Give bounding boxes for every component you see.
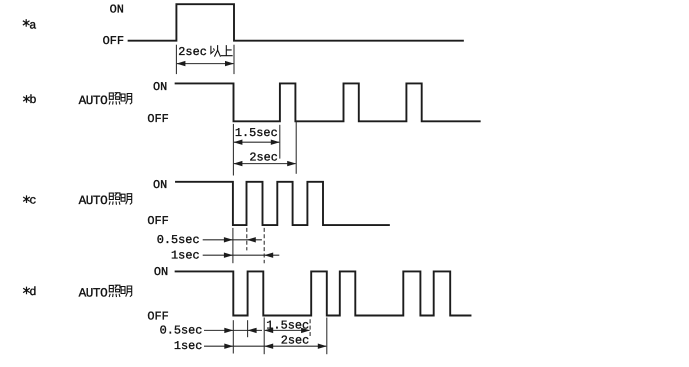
svg-text:AUTO: AUTO xyxy=(79,193,108,208)
svg-text:ON: ON xyxy=(154,265,168,279)
svg-text:AUTO: AUTO xyxy=(79,286,108,301)
row d label *d xyxy=(24,285,37,299)
dimension arrow 2sec (row b) xyxy=(233,161,296,166)
dimension arrow 2sec以上 xyxy=(176,61,234,66)
extension line a right xyxy=(233,45,235,74)
extension line d fall2 xyxy=(263,318,265,355)
svg-text:a: a xyxy=(29,18,36,32)
dimension arrows 1sec + 2sec (row d) xyxy=(204,344,327,349)
row b label AUTO照明 xyxy=(79,93,132,108)
dimension arrow 1.5sec (row d) xyxy=(264,328,310,333)
extension line b fall xyxy=(232,124,234,176)
svg-text:0.5sec: 0.5sec xyxy=(160,323,203,337)
waveform d xyxy=(176,271,471,315)
waveform b xyxy=(176,83,480,121)
dimension arrow 1.5sec (row b) xyxy=(233,140,279,145)
svg-text:OFF: OFF xyxy=(147,112,168,126)
svg-text:c: c xyxy=(29,194,36,208)
svg-text:OFF: OFF xyxy=(147,214,168,228)
dimension arrows 0.5sec (row d) xyxy=(204,328,262,333)
extension line d rise3 (dashed) xyxy=(309,319,311,337)
extension line a left xyxy=(175,45,177,74)
row d label AUTO照明 xyxy=(79,285,132,300)
row a label *a xyxy=(23,18,36,32)
extension line d fall1 xyxy=(232,320,234,353)
svg-text:b: b xyxy=(29,93,36,107)
svg-text:AUTO: AUTO xyxy=(79,93,108,108)
svg-text:1sec: 1sec xyxy=(171,248,200,262)
waveform c xyxy=(176,182,389,225)
extension line d rise1 xyxy=(247,320,249,337)
svg-text:OFF: OFF xyxy=(103,34,124,48)
row b label *b xyxy=(24,93,37,107)
svg-text:2sec: 2sec xyxy=(249,151,278,165)
extension line c fall2 (dashed) xyxy=(263,228,265,263)
extension line b rise1 xyxy=(279,125,281,159)
svg-text:OFF: OFF xyxy=(147,309,168,323)
row c label AUTO照明 xyxy=(79,193,132,208)
svg-text:ON: ON xyxy=(153,80,167,94)
extension line d fall3 xyxy=(326,318,328,355)
svg-text:1.5sec: 1.5sec xyxy=(235,126,278,140)
extension line b fall2 xyxy=(295,121,297,173)
dimension arrows 0.5sec (row c) xyxy=(203,237,262,242)
row c label *c xyxy=(24,194,37,208)
svg-text:2sec: 2sec xyxy=(178,45,207,59)
svg-text:d: d xyxy=(29,285,36,299)
svg-text:1sec: 1sec xyxy=(174,339,203,353)
extension line c fall1 xyxy=(232,228,234,263)
dimension arrows 1sec (row c) xyxy=(203,253,280,258)
dimension text 2sec以上 xyxy=(178,45,232,59)
svg-text:ON: ON xyxy=(153,178,167,192)
extension line c rise1 (dashed) xyxy=(246,228,248,251)
svg-text:0.5sec: 0.5sec xyxy=(157,233,200,247)
svg-text:2sec: 2sec xyxy=(281,334,310,348)
waveform a xyxy=(129,4,463,41)
svg-text:ON: ON xyxy=(110,3,124,17)
